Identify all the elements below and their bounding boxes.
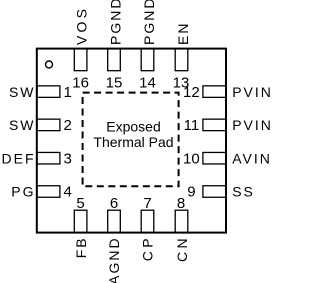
package body outline U1 <box>37 49 226 233</box>
svg-text:PGND: PGND <box>141 0 157 45</box>
svg-text:Exposed: Exposed <box>106 118 160 134</box>
svg-text:PVIN: PVIN <box>232 117 270 133</box>
pin 11 pad <box>203 119 226 130</box>
svg-text:SW: SW <box>9 84 36 100</box>
svg-text:16: 16 <box>72 75 89 92</box>
pin 10 pad <box>203 152 226 164</box>
thermal pad text <box>93 118 173 150</box>
pin 2 pad <box>37 119 60 130</box>
pin 8 pad <box>175 210 188 232</box>
svg-text:1: 1 <box>64 84 72 101</box>
svg-text:10: 10 <box>183 150 200 167</box>
svg-text:9: 9 <box>187 184 195 201</box>
pin 1 indicator circle <box>46 61 53 68</box>
svg-text:13: 13 <box>173 75 190 92</box>
pin 6 pad <box>108 210 121 232</box>
svg-text:AGND: AGND <box>106 236 122 283</box>
pin 12 pad <box>203 86 226 98</box>
pin 14 pad <box>141 49 154 71</box>
pin 13 pad <box>175 49 188 71</box>
svg-text:15: 15 <box>106 75 123 92</box>
pin 5 pad <box>74 210 87 232</box>
svg-text:8: 8 <box>177 195 185 212</box>
pin 3 pad <box>37 152 60 164</box>
svg-text:PVIN: PVIN <box>232 84 270 100</box>
svg-text:7: 7 <box>143 195 151 212</box>
exposed thermal pad (dashed) <box>83 93 179 187</box>
svg-text:Thermal Pad: Thermal Pad <box>93 134 173 150</box>
svg-text:PGND: PGND <box>108 0 124 45</box>
svg-text:CN: CN <box>174 235 190 262</box>
svg-text:6: 6 <box>110 195 118 212</box>
pin 9 pad <box>203 186 226 198</box>
svg-text:5: 5 <box>76 195 84 212</box>
svg-text:VOS: VOS <box>73 6 89 45</box>
svg-text:PG: PG <box>11 184 35 200</box>
pin 16 pad <box>74 49 87 71</box>
pin 4 pad <box>37 186 60 198</box>
svg-text:14: 14 <box>139 75 156 92</box>
svg-text:4: 4 <box>64 184 72 201</box>
svg-text:CP: CP <box>140 235 156 261</box>
svg-text:AVIN: AVIN <box>232 150 270 166</box>
svg-text:3: 3 <box>64 150 72 167</box>
svg-text:2: 2 <box>64 117 72 134</box>
pin 15 pad <box>108 49 121 71</box>
svg-text:EN: EN <box>175 22 191 45</box>
svg-text:DEF: DEF <box>2 150 36 166</box>
svg-text:SW: SW <box>9 117 36 133</box>
pin 1 pad <box>37 86 60 98</box>
pin 7 pad <box>141 210 154 232</box>
svg-text:11: 11 <box>184 117 200 134</box>
svg-text:SS: SS <box>232 184 255 200</box>
svg-text:FB: FB <box>73 236 89 258</box>
